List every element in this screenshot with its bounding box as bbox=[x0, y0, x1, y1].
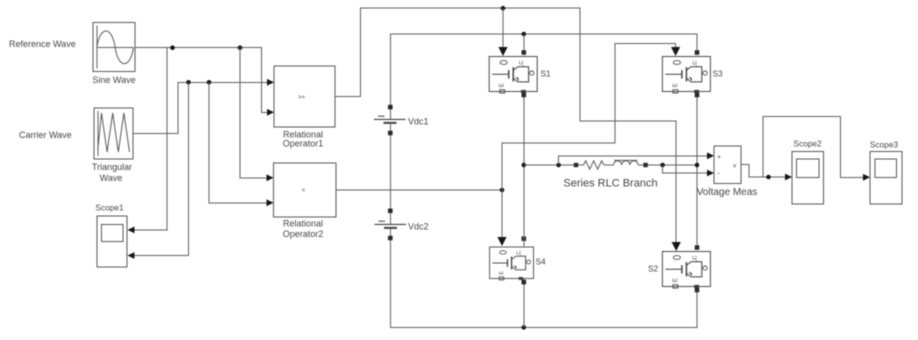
arrow gate S1 bbox=[498, 47, 507, 56]
node RelOp2 out junction bbox=[500, 188, 505, 193]
wire sine output to RelOp1 in2 bbox=[135, 48, 268, 113]
svg-text:>=: >= bbox=[298, 95, 306, 101]
node sine-relop2 junction bbox=[238, 45, 243, 50]
node sine-scope junction bbox=[170, 45, 175, 50]
battery Vdc1 bbox=[374, 105, 406, 136]
block Sine Wave bbox=[93, 23, 135, 72]
wire node A to RLC bbox=[524, 164, 576, 166]
wire DC minus rail bbox=[390, 240, 697, 327]
svg-text:Relational: Relational bbox=[283, 219, 323, 229]
svg-text:Vdc1: Vdc1 bbox=[408, 117, 429, 127]
svg-text:Operator1: Operator1 bbox=[283, 139, 324, 149]
arrow into Scope2 bbox=[785, 174, 792, 181]
arrow into Voltage Meas minus bbox=[707, 170, 714, 177]
port S2 E bbox=[695, 288, 700, 293]
wire minus measure to Voltage Meas bbox=[663, 165, 709, 173]
wire RelOp2 output bbox=[336, 189, 502, 191]
arrow into RelOp2 in1 bbox=[267, 174, 274, 181]
arrow gate S4 bbox=[497, 237, 506, 246]
node A left leg load tap bbox=[522, 163, 527, 168]
transistor S2 bbox=[662, 252, 710, 289]
wire left leg S1E to S4C bbox=[523, 97, 525, 247]
svg-text:S2: S2 bbox=[648, 264, 659, 274]
svg-text:Wave: Wave bbox=[100, 173, 123, 183]
arrow into Scope3 bbox=[863, 174, 870, 181]
wire RelOp1 output top rail bbox=[335, 8, 676, 242]
svg-text:S4: S4 bbox=[536, 257, 547, 267]
svg-text:<: < bbox=[302, 188, 306, 194]
arrow into Scope1 in2 bbox=[128, 252, 135, 259]
wire gate feed S3 bbox=[502, 44, 676, 191]
port S2 C bbox=[695, 245, 700, 250]
node triangle-relop2 junction bbox=[207, 80, 212, 85]
block Scope1 bbox=[97, 216, 127, 267]
arrow into RelOp1 in1 bbox=[267, 79, 274, 86]
svg-text:Scope2: Scope2 bbox=[793, 139, 822, 149]
arrow into Voltage Meas plus bbox=[707, 152, 714, 159]
svg-text:Voltage Meas: Voltage Meas bbox=[697, 187, 758, 198]
transistor S4 bbox=[490, 247, 534, 280]
node S4 emitter junction bbox=[522, 325, 527, 330]
svg-text:Vdc2: Vdc2 bbox=[408, 222, 429, 232]
port S4 C bbox=[522, 236, 527, 241]
wire DC plus rail bbox=[390, 34, 697, 107]
svg-text:Operator2: Operator2 bbox=[283, 229, 324, 239]
wire Voltage Meas output to Scope2 bbox=[741, 165, 788, 178]
wire triangle branch to Scope1 in2 bbox=[134, 82, 189, 255]
svg-text:S1: S1 bbox=[541, 69, 552, 79]
wire S4 emitter stub bbox=[523, 279, 525, 328]
wire gate feed S4 bbox=[501, 190, 503, 238]
wire loop over Scope2 to Scope3 bbox=[763, 117, 866, 178]
block Scope3 bbox=[870, 151, 902, 204]
node S1 collector junction bbox=[522, 32, 527, 37]
svg-text:Triangular: Triangular bbox=[92, 162, 132, 172]
wire battery series link bbox=[389, 135, 391, 208]
wire triangle output to RelOp1 in1 bbox=[133, 82, 268, 133]
block Triangular Wave bbox=[94, 108, 133, 159]
resistor-inductor Series RLC Branch bbox=[574, 160, 648, 169]
arrow gate S2 bbox=[672, 242, 681, 251]
svg-text:Scope1: Scope1 bbox=[95, 203, 124, 213]
port S1 E bbox=[522, 93, 527, 98]
wire sine branch to RelOp2 in1 bbox=[240, 48, 267, 178]
node triangle-scope junction bbox=[186, 80, 191, 85]
transistor S1 bbox=[489, 57, 537, 94]
svg-text:S3: S3 bbox=[713, 69, 724, 79]
wire sine branch to Scope1 in1 bbox=[134, 48, 167, 230]
wire S1 collector stub bbox=[523, 34, 525, 52]
port S4 E bbox=[522, 280, 527, 285]
block Scope2 bbox=[792, 151, 823, 204]
node plus measure split bbox=[556, 163, 561, 168]
battery Vdc2 bbox=[375, 209, 407, 241]
svg-text:Scope3: Scope3 bbox=[870, 140, 899, 150]
node minus measure split bbox=[660, 163, 665, 168]
svg-text:Sine Wave: Sine Wave bbox=[92, 75, 135, 85]
node scope split bbox=[766, 175, 771, 180]
svg-text:Series RLC Branch: Series RLC Branch bbox=[563, 178, 657, 190]
svg-text:Reference Wave: Reference Wave bbox=[9, 39, 76, 49]
arrow into Scope1 in1 bbox=[128, 227, 135, 234]
arrow gate S3 bbox=[671, 47, 680, 56]
port S3 E bbox=[695, 93, 700, 98]
port S1 C bbox=[522, 50, 527, 55]
arrow into RelOp2 in2 bbox=[267, 199, 274, 206]
svg-text:Carrier Wave: Carrier Wave bbox=[19, 130, 72, 140]
block Relational Operator1 bbox=[274, 66, 335, 127]
wire plus measure to Voltage Meas bbox=[559, 156, 709, 165]
svg-text:+: + bbox=[717, 154, 721, 161]
wire triangle branch to RelOp2 in2 bbox=[209, 82, 267, 203]
wire RLC to node B bbox=[648, 164, 697, 166]
transistor S3 bbox=[662, 57, 710, 94]
wire gate feed S1 bbox=[502, 8, 504, 47]
block Voltage Meas bbox=[714, 146, 741, 183]
node gate S1 junction bbox=[501, 6, 506, 11]
block Relational Operator2 bbox=[274, 163, 337, 217]
node B right leg load tap bbox=[695, 163, 700, 168]
port S3 C bbox=[695, 50, 700, 55]
wire right leg S3E to S2C bbox=[696, 97, 698, 245]
arrow into RelOp1 in2 bbox=[267, 109, 274, 116]
